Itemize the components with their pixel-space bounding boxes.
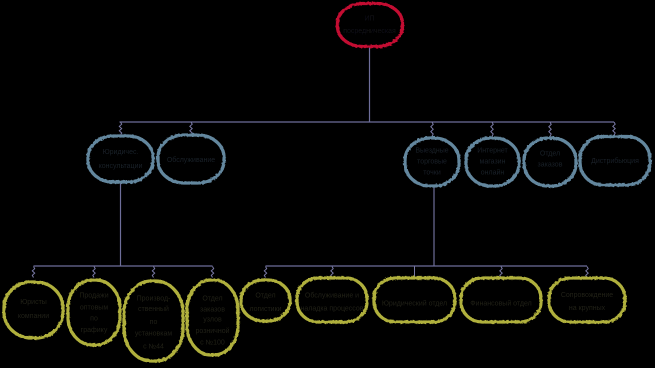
svg-text:графику: графику bbox=[81, 327, 108, 334]
svg-text:Отдел: Отдел bbox=[255, 293, 275, 300]
svg-text:Производ-: Производ- bbox=[137, 296, 171, 303]
svg-text:розничной: розничной bbox=[195, 327, 229, 335]
svg-text:Дистрибьюция: Дистрибьюция bbox=[591, 157, 639, 165]
svg-text:онлайн: онлайн bbox=[481, 169, 505, 177]
svg-text:логистики: логистики bbox=[249, 306, 281, 313]
svg-text:Юридичес.: Юридичес. bbox=[103, 149, 139, 156]
svg-text:оптовым: оптовым bbox=[80, 305, 108, 312]
svg-text:ственный: ственный bbox=[138, 305, 169, 313]
svg-text:на крупных: на крупных bbox=[569, 305, 606, 312]
svg-text:Обслуживание: Обслуживание bbox=[167, 156, 215, 164]
svg-text:ИП: ИП bbox=[364, 16, 374, 23]
svg-text:магазин: магазин bbox=[480, 159, 506, 166]
svg-text:с №100: с №100 bbox=[200, 340, 225, 347]
svg-text:Отдел: Отдел bbox=[202, 296, 222, 303]
svg-text:Продажи: Продажи bbox=[79, 293, 108, 300]
svg-text:с №44: с №44 bbox=[143, 344, 164, 351]
svg-text:компании: компании bbox=[18, 313, 49, 320]
svg-text:заказов: заказов bbox=[200, 307, 225, 314]
svg-text:консультации: консультации bbox=[99, 163, 143, 170]
svg-text:Юридический отдел: Юридический отдел bbox=[382, 300, 447, 308]
svg-text:Финансовый отдел: Финансовый отдел bbox=[470, 300, 531, 308]
svg-text:установкам: установкам bbox=[135, 331, 173, 338]
svg-text:Отдел: Отдел bbox=[540, 151, 560, 158]
svg-text:узлов: узлов bbox=[203, 317, 222, 324]
svg-text:Интернет: Интернет bbox=[477, 148, 508, 155]
svg-text:торговые: торговые bbox=[417, 159, 447, 166]
svg-text:точки: точки bbox=[423, 170, 441, 177]
svg-text:по: по bbox=[90, 316, 98, 323]
svg-text:Сопровождение: Сопровождение bbox=[561, 292, 613, 299]
svg-text:посредническая: посредническая bbox=[343, 28, 396, 35]
svg-text:Юристы: Юристы bbox=[20, 299, 47, 306]
svg-text:Выездные: Выездные bbox=[415, 148, 448, 155]
svg-text:Обслуживание и: Обслуживание и bbox=[305, 292, 359, 300]
svg-text:наладка процессов: наладка процессов bbox=[301, 306, 364, 313]
svg-text:заказов: заказов bbox=[538, 162, 563, 169]
svg-text:по: по bbox=[150, 319, 158, 326]
